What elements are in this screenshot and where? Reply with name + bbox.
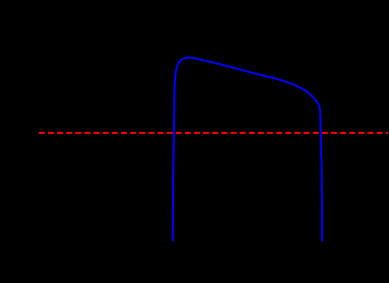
red dashed threshold line (39, 132, 388, 134)
blue curve (173, 57, 322, 241)
